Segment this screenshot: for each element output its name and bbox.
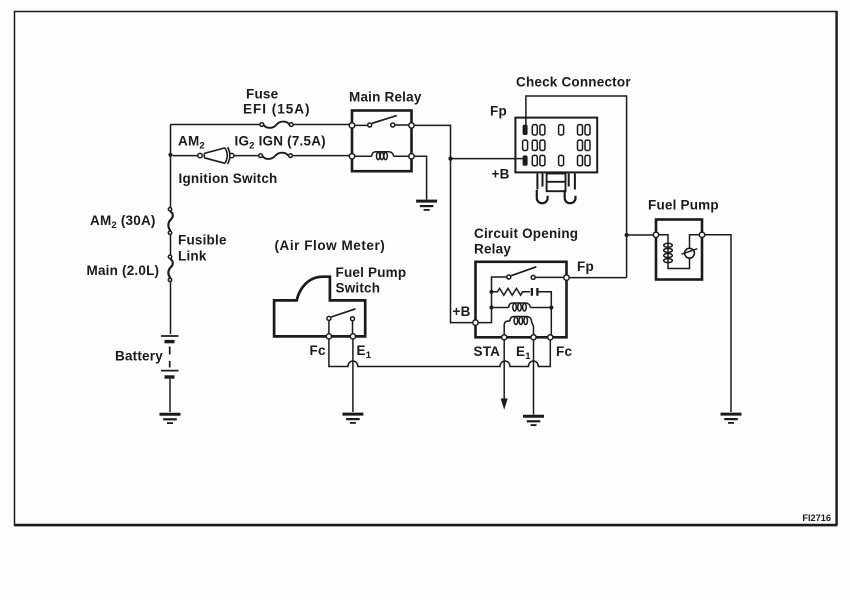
svg-text:+B: +B	[453, 304, 471, 319]
air flow meter / fuel pump switch	[274, 277, 365, 337]
label: Fusible Link	[178, 233, 227, 264]
wire: Fp pin stub	[516, 119, 526, 159]
wire: battery to ground	[169, 379, 171, 412]
label: Circuit Opening Relay	[474, 226, 578, 256]
node: coil junction right	[549, 305, 553, 309]
fuel pump switch contact stems	[329, 320, 353, 334]
svg-text:Fc: Fc	[310, 343, 326, 358]
check connector pins row 1	[532, 125, 590, 135]
wire: check connector Fp loop	[526, 96, 627, 278]
check connector pins row 3	[532, 155, 590, 165]
svg-text:Check Connector: Check Connector	[516, 75, 631, 90]
svg-text:Switch: Switch	[336, 281, 381, 296]
wire: AFM Fc to relay Fc with hops	[329, 339, 550, 367]
svg-text:+B: +B	[492, 166, 510, 181]
svg-text:Battery: Battery	[115, 349, 163, 364]
wire: main relay coil to ground	[414, 156, 426, 199]
node: AM2 branch junction	[168, 153, 172, 157]
arrow: STA to starter relay	[501, 399, 508, 410]
node: +B branch junction	[448, 157, 452, 161]
svg-text:Main Relay: Main Relay	[349, 90, 422, 105]
relay terminal Fc	[548, 335, 553, 340]
relay contact wires	[355, 124, 409, 126]
wire: STA to starter	[503, 340, 505, 399]
svg-text:STA: STA	[474, 344, 501, 359]
label: Fuel Pump Switch	[336, 265, 407, 296]
relay coil	[372, 152, 394, 160]
fusible link AM2 (30A)	[168, 208, 173, 235]
wire: main feed vertical from battery	[170, 125, 172, 335]
fuel pump	[656, 220, 702, 280]
main relay U1	[349, 111, 414, 172]
check connector pins row 2	[523, 140, 590, 150]
fuel pump motor	[682, 235, 700, 258]
wire: Fp branch to fuel pump	[627, 234, 654, 236]
relay terminals	[349, 123, 414, 159]
svg-text:Circuit Opening: Circuit Opening	[474, 226, 578, 241]
relay coil L2 (STA winding)	[504, 317, 533, 336]
wire: capacitor to Fc terminal	[550, 308, 552, 335]
wire: +B branch to check connector	[451, 158, 518, 160]
circuit opening relay	[476, 262, 567, 338]
AFM terminal Fc	[326, 334, 331, 339]
svg-text:Fuse: Fuse	[246, 87, 279, 102]
wire: AFM E1 to ground	[352, 339, 354, 412]
svg-text:Fuel Pump: Fuel Pump	[336, 265, 407, 280]
svg-text:Fp: Fp	[490, 104, 507, 119]
svg-text:Main (2.0L): Main (2.0L)	[87, 263, 160, 278]
wire: relay Fp to fuel pump net	[569, 277, 626, 279]
svg-text:Fp: Fp	[577, 259, 594, 274]
capacitor C	[532, 288, 551, 305]
resistor R	[492, 288, 531, 295]
check connector pin +B (filled, row 3)	[523, 155, 528, 165]
svg-text:FI2716: FI2716	[802, 513, 831, 523]
node: resistor junction	[489, 290, 493, 294]
node: Fp junction	[625, 233, 629, 237]
fuel pump switch blade	[331, 309, 355, 317]
relay switch blade	[511, 267, 536, 276]
wire: IGN fuse to main relay coil	[293, 155, 350, 157]
svg-text:Fuel Pump: Fuel Pump	[648, 198, 719, 213]
svg-text:Relay: Relay	[474, 241, 511, 256]
wire: relay E1 to ground	[533, 340, 535, 415]
fuse IGN (7.5A)	[259, 153, 293, 159]
label: Fuse EFI (15A)	[243, 87, 311, 117]
svg-text:Link: Link	[178, 249, 207, 264]
ground: fuel pump	[721, 414, 742, 423]
wire: main relay output to +B vertical	[414, 125, 473, 322]
ignition switch symbol	[198, 147, 234, 164]
AFM terminal E1	[350, 334, 355, 339]
check connector pin Fp (filled, row 1)	[523, 125, 528, 135]
svg-text:Fc: Fc	[556, 344, 572, 359]
ground: AFM E1	[342, 414, 363, 423]
relay terminal +B	[473, 320, 478, 325]
battery	[161, 336, 179, 377]
svg-text:Fusible: Fusible	[178, 233, 227, 248]
fuse EFI (15A)	[260, 122, 293, 128]
relay terminal E1	[531, 335, 536, 340]
fuel pump terminals	[653, 232, 704, 237]
svg-text:EFI (15A): EFI (15A)	[243, 102, 311, 117]
node: coil junction left	[489, 305, 493, 309]
relay switch contacts	[507, 275, 535, 279]
ground: relay E1	[523, 416, 544, 425]
wire: EFI fuse row	[171, 124, 350, 126]
wire: fuel pump to ground	[705, 235, 731, 412]
relay coil leads	[355, 155, 409, 157]
relay switch blade	[372, 116, 397, 124]
fusible link Main (2.0L)	[168, 255, 173, 281]
svg-text:Ignition Switch: Ignition Switch	[179, 171, 278, 186]
ground: main relay	[416, 201, 437, 210]
fuel pump switch contacts	[327, 316, 355, 320]
check connector	[515, 118, 597, 173]
check connector retainer clip	[537, 174, 576, 204]
relay coil L1	[494, 303, 550, 311]
relay switch contacts	[368, 123, 372, 127]
relay terminal Fp	[564, 275, 569, 280]
relay terminal STA	[502, 335, 507, 340]
fuel pump coil	[659, 235, 690, 269]
ground: battery	[160, 414, 181, 423]
wire: relay switch to Fp terminal	[535, 276, 564, 278]
wire: AM2 row to ignition switch	[173, 155, 198, 157]
relay inner +B bus wire	[478, 277, 507, 323]
svg-text:(Air Flow Meter): (Air Flow Meter)	[275, 238, 386, 253]
wire: ignition switch to IGN fuse	[234, 155, 258, 157]
